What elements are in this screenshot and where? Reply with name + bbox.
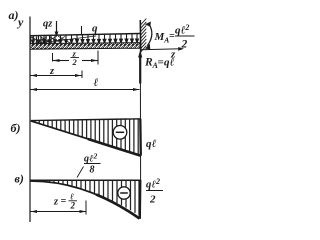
tick at l/2 — [85, 201, 87, 215]
svg-text:2: 2 — [70, 201, 76, 211]
right edge connector line — [139, 83, 141, 180]
svg-text:а): а) — [9, 8, 19, 22]
moment arc M_A — [147, 24, 152, 46]
svg-text:2: 2 — [149, 194, 156, 206]
svg-text:q: q — [92, 23, 98, 35]
reaction R_A arrow — [139, 56, 141, 84]
svg-text:в): в) — [15, 172, 24, 186]
svg-text:=: = — [61, 196, 67, 207]
extra dark smudge at left end of load strip — [31, 36, 51, 49]
moment diagram M outline: zero line — [31, 179, 141, 181]
svg-text:qℓ: qℓ — [164, 57, 175, 69]
tick at z — [81, 71, 83, 79]
svg-text:qℓ: qℓ — [146, 138, 157, 150]
svg-text:ℓ: ℓ — [94, 77, 99, 89]
y-axis (left vertical reference line) — [29, 17, 31, 223]
svg-text:2: 2 — [72, 57, 78, 67]
svg-text:y: y — [16, 15, 24, 29]
moment diagram right edge — [139, 180, 142, 219]
shear diagram Q (triangle) hatching — [35, 119, 138, 156]
distributed load top line — [30, 34, 140, 36]
diagonal scan-artifact strokes over left part of load strip — [31, 36, 96, 44]
moment diagram parabola — [31, 181, 140, 219]
arrow qz (resultant) — [56, 21, 58, 34]
section tick above load at z — [81, 26, 83, 36]
dimension l line with arrows — [31, 89, 140, 91]
beam (hatched bar) — [30, 43, 140, 50]
svg-text:qz: qz — [43, 19, 53, 30]
moment diagram M hatching — [36, 181, 139, 216]
load arrows — [32, 34, 139, 44]
dimension z/2 ticks — [52, 53, 54, 62]
svg-text:б): б) — [11, 121, 21, 135]
z axis to the right of wall — [141, 49, 181, 50]
wall (fixed support) line — [139, 20, 141, 53]
svg-text:8: 8 — [90, 165, 95, 176]
dimension z/2 line with arrows — [53, 60, 69, 62]
minus sign in circle (M) — [118, 187, 130, 199]
dimension z = l/2 — [31, 211, 87, 213]
wall hatching — [141, 19, 147, 53]
minus sign in circle (Q) — [113, 126, 127, 140]
svg-text:=: = — [158, 57, 164, 69]
shear diagram Q outline — [31, 119, 140, 121]
dimension z line with arrows — [31, 75, 82, 77]
